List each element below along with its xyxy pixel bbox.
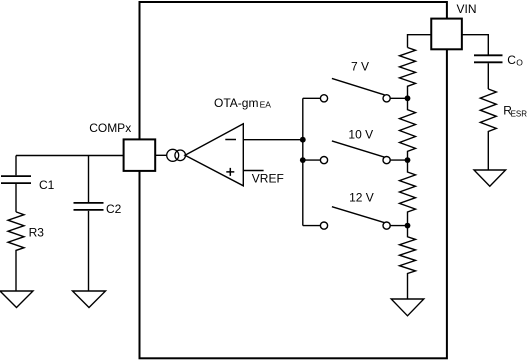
resistor divider R-mid2	[400, 161, 416, 226]
node tap 7V	[405, 95, 411, 101]
svg-text:COMPx: COMPx	[89, 121, 131, 135]
switch S1 (7 V)	[303, 78, 408, 102]
wire compensation net (COMPx to C1/C2)	[16, 155, 124, 157]
op-amp U1 OTA-gmEA	[185, 124, 243, 186]
node tap 12V	[405, 223, 411, 229]
svg-text:12 V: 12 V	[349, 191, 374, 205]
node switch-2 junction	[300, 157, 306, 163]
wire inverting input to switch bus	[243, 139, 302, 141]
svg-text:7 V: 7 V	[351, 59, 369, 73]
svg-text:OTA-gmEA: OTA-gmEA	[214, 96, 271, 110]
svg-text:C2: C2	[106, 202, 122, 216]
wire CO to RESR	[487, 63, 489, 89]
svg-text:10 V: 10 V	[348, 128, 373, 142]
ground (divider)	[391, 299, 424, 316]
resistor divider R-top	[400, 48, 416, 99]
pin box COMPx	[124, 139, 156, 171]
svg-text:VIN: VIN	[457, 2, 477, 16]
resistor divider R-bot	[400, 226, 416, 299]
pin box VIN	[431, 19, 462, 50]
node inverting-input junction	[300, 137, 306, 143]
switch S3 (12 V)	[303, 207, 408, 230]
svg-text:R3: R3	[29, 225, 45, 239]
resistor R3	[8, 212, 24, 291]
capacitor C1	[1, 156, 31, 212]
node tap 10V	[405, 157, 411, 163]
svg-text:C1: C1	[39, 178, 55, 192]
ground (RESR branch)	[474, 170, 506, 186]
wire VREF stub (non-inverting input)	[243, 170, 263, 172]
wire VIN to divider top	[408, 35, 432, 48]
svg-text:RESR: RESR	[503, 103, 527, 118]
ground (C1/R3 branch)	[0, 291, 33, 308]
svg-text:VREF: VREF	[252, 172, 284, 186]
resistor RESR	[480, 89, 496, 170]
capacitor C2	[74, 156, 104, 292]
wire op-amp output to COMPx	[155, 154, 167, 156]
wire VIN to output cap	[462, 35, 489, 55]
switch S2 (10 V)	[303, 141, 408, 164]
ground (C2 branch)	[73, 291, 106, 308]
resistor divider R-mid1	[400, 98, 416, 161]
svg-text:CO: CO	[507, 53, 523, 67]
capacitor CO	[474, 55, 503, 62]
gm output stage circles	[167, 149, 179, 161]
IC boundary	[140, 2, 447, 358]
switch common bus	[302, 98, 304, 225]
